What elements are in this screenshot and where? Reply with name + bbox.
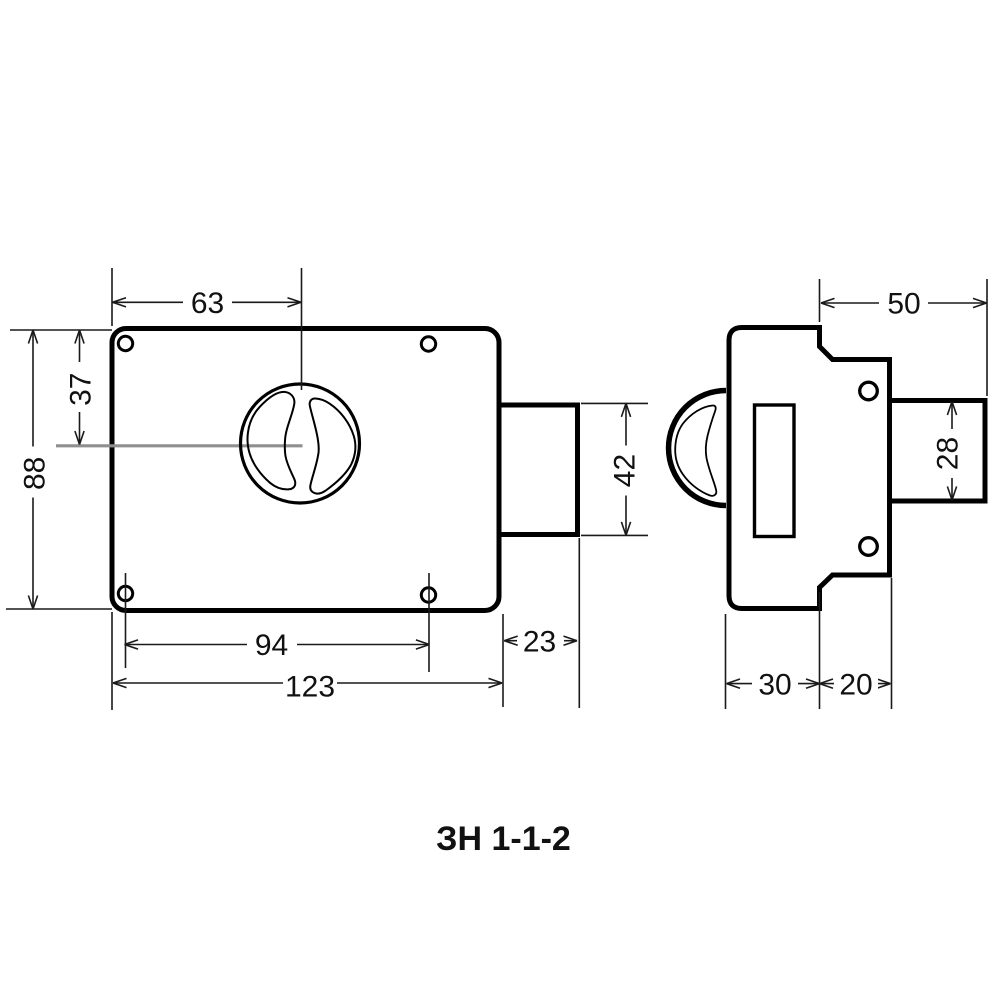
svg-text:50: 50	[887, 288, 920, 321]
svg-text:88: 88	[19, 457, 52, 490]
svg-text:30: 30	[758, 669, 791, 702]
svg-text:94: 94	[255, 629, 288, 662]
svg-text:23: 23	[523, 626, 556, 659]
svg-text:123: 123	[285, 671, 335, 704]
svg-text:63: 63	[191, 287, 224, 320]
svg-text:42: 42	[609, 454, 642, 487]
svg-text:37: 37	[65, 373, 98, 406]
svg-text:28: 28	[932, 437, 965, 470]
svg-text:20: 20	[839, 669, 872, 702]
svg-text:ЗН 1-1-2: ЗН 1-1-2	[436, 820, 571, 858]
